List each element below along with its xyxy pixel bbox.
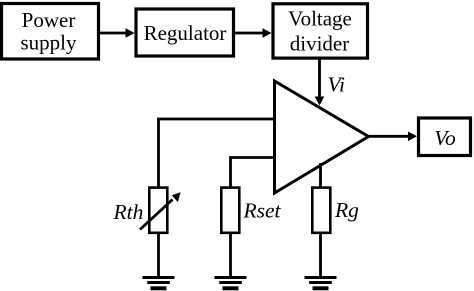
svg-text:divider: divider (290, 32, 349, 56)
svg-text:Rg: Rg (334, 198, 359, 222)
svg-text:Rset: Rset (243, 199, 282, 223)
svg-text:Power: Power (22, 8, 76, 32)
svg-text:Vi: Vi (328, 73, 346, 97)
svg-text:Rth: Rth (113, 200, 144, 224)
svg-text:Voltage: Voltage (288, 7, 352, 31)
svg-text:Vo: Vo (434, 126, 456, 150)
svg-text:supply: supply (20, 31, 77, 55)
svg-text:Regulator: Regulator (144, 21, 227, 45)
